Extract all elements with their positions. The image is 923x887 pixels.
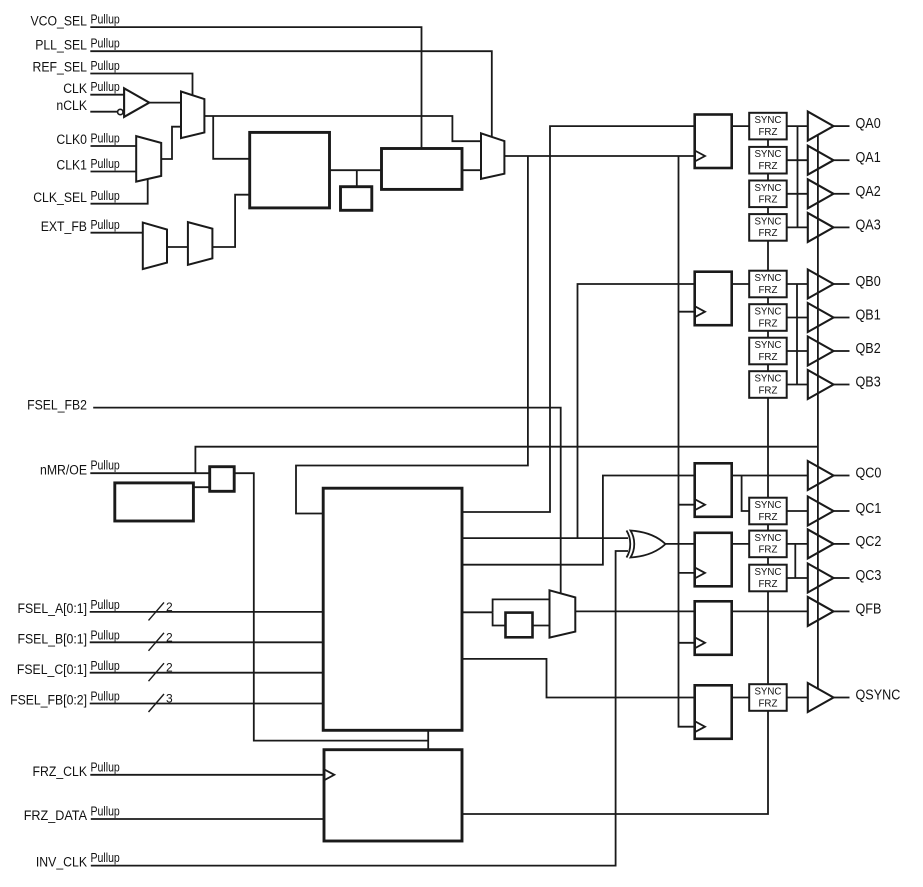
wire FF C1 branch to QC1 sync [742, 476, 750, 512]
wire clock tap to FF C2 [679, 572, 695, 574]
wire EXT_FB to mux M3 [91, 232, 143, 234]
wire INV_CLK to XOR input [91, 551, 628, 866]
FF B clock wedge [695, 306, 705, 317]
FF FB clock wedge [695, 637, 705, 648]
svg-text:FRZ: FRZ [758, 227, 778, 239]
wire divide-by-2 output to FSEL mux [533, 625, 550, 627]
SYNC FRZ box for QSYNC [749, 684, 787, 711]
wire CLK to input buffer [90, 94, 124, 96]
svg-text:Pullup: Pullup [91, 690, 120, 704]
divider block [323, 488, 462, 730]
svg-text:SYNC: SYNC [754, 499, 781, 511]
output buffer QB2 [808, 337, 834, 366]
wire QC2 output stub [834, 543, 850, 545]
wire QB1 to output buffer [787, 317, 808, 319]
wire clock tap to FF FB [679, 642, 695, 644]
mux M1 (reference select) [181, 92, 204, 139]
output buffer QA0 [808, 112, 834, 141]
wire QA3 to output buffer [787, 226, 808, 228]
flip-flop FF SYNC [695, 685, 732, 739]
wire divider bottom to freeze block [427, 730, 429, 749]
output buffer QC2 [808, 529, 834, 558]
svg-text:QC1: QC1 [856, 501, 882, 517]
divide-by-2 box [506, 613, 533, 638]
svg-text:QB3: QB3 [856, 375, 881, 391]
svg-text:Pullup: Pullup [91, 59, 120, 73]
output buffer QC1 [808, 497, 834, 526]
wire QB2 output stub [834, 350, 850, 352]
svg-text:INV_CLK: INV_CLK [36, 855, 88, 871]
svg-text:QC3: QC3 [856, 568, 882, 584]
output buffer QA1 [808, 146, 834, 175]
wire QC2 to output buffer [787, 543, 808, 545]
svg-text:QA3: QA3 [856, 217, 881, 233]
wire divider out 3 to FF C1 data [462, 476, 808, 565]
mux M5 (PLL bypass select) [481, 133, 504, 179]
output buffer QC0 [808, 461, 834, 490]
wire clock bus to FF clocks [679, 156, 695, 727]
svg-text:2: 2 [166, 661, 173, 675]
mux M3 (EXT_FB stage 1) [143, 223, 167, 270]
svg-text:FRZ: FRZ [758, 544, 778, 556]
wire freeze chain and freeze block output [462, 140, 768, 814]
loop filter box [341, 187, 372, 211]
flip-flop FF C1 [695, 463, 732, 517]
svg-text:Pullup: Pullup [91, 805, 120, 819]
wire clock down to divider block [296, 156, 528, 514]
svg-text:FRZ_DATA: FRZ_DATA [24, 808, 88, 824]
SYNC FRZ box for QA3 [749, 214, 787, 241]
svg-text:PLL_SEL: PLL_SEL [35, 37, 87, 53]
FF A clock wedge [695, 151, 705, 162]
svg-text:CLK1: CLK1 [56, 158, 87, 174]
inversion bubble on nCLK [118, 109, 123, 114]
svg-text:QC2: QC2 [856, 534, 882, 550]
wire QB0 output stub [834, 283, 850, 285]
wire mux M1 output to mux M5 [205, 116, 482, 141]
SYNC FRZ box for QA1 [749, 147, 787, 174]
svg-text:QA2: QA2 [856, 184, 881, 200]
XOR gate (INV_CLK) [627, 531, 631, 558]
svg-text:QSYNC: QSYNC [856, 688, 901, 704]
wire mux M3 output to mux M4 [167, 246, 188, 248]
bus slash FSEL_C[0:1] [149, 663, 165, 681]
wire mux M2 output to mux M1 [161, 127, 181, 159]
wire FSEL_B to divider [90, 641, 324, 643]
output buffer QB0 [808, 270, 834, 299]
wire QA2 output stub [834, 193, 850, 195]
wire QB2 to output buffer [787, 350, 808, 352]
wire bypass branch to FSEL mux [493, 599, 550, 612]
svg-text:Pullup: Pullup [91, 132, 120, 146]
svg-text:FRZ: FRZ [758, 126, 778, 138]
PLL phase detector block [250, 132, 330, 208]
svg-text:CLK: CLK [63, 81, 87, 97]
wire FSEL_A to divider [90, 611, 324, 613]
svg-text:VCO_SEL: VCO_SEL [31, 13, 88, 29]
svg-text:FRZ: FRZ [758, 578, 778, 590]
svg-text:2: 2 [166, 630, 173, 644]
wire bank C tie [794, 544, 796, 578]
wire VCO output to mux M5 [462, 169, 481, 171]
wire PLL_SEL to mux M5 select [90, 51, 492, 137]
wire divider out 2 to XOR input [462, 537, 628, 539]
svg-text:QC0: QC0 [856, 466, 882, 482]
svg-text:FRZ: FRZ [758, 160, 778, 172]
SYNC FRZ box for QA0 [749, 113, 787, 140]
svg-text:QB2: QB2 [856, 341, 881, 357]
FF SYNC clock wedge [695, 721, 705, 732]
output buffer QFB [808, 597, 834, 626]
wire QSYNC to output buffer [787, 697, 808, 699]
svg-text:nCLK: nCLK [56, 98, 87, 114]
svg-text:SYNC: SYNC [754, 373, 781, 385]
svg-text:REF_SEL: REF_SEL [33, 60, 88, 76]
flip-flop FF C2 [695, 533, 732, 587]
wire branch to divide-by-2 box [493, 612, 506, 625]
svg-text:FRZ: FRZ [758, 317, 778, 329]
svg-text:Pullup: Pullup [91, 189, 120, 203]
SYNC FRZ box for QB1 [749, 304, 787, 331]
svg-text:FSEL_FB2: FSEL_FB2 [27, 398, 87, 414]
mux M4 (EXT_FB stage 2) [188, 222, 213, 265]
svg-text:FSEL_A[0:1]: FSEL_A[0:1] [18, 601, 88, 617]
svg-text:QB0: QB0 [856, 274, 881, 290]
svg-text:SYNC: SYNC [754, 686, 781, 698]
svg-text:Pullup: Pullup [91, 659, 120, 673]
wire QB0 to output buffer [787, 283, 808, 285]
wire QA0 to output buffer [787, 125, 808, 127]
wire QC3 output stub [834, 577, 850, 579]
svg-text:SYNC: SYNC [754, 215, 781, 227]
wire FSEL_FB2 to FSEL mux select [93, 408, 561, 594]
svg-text:SYNC: SYNC [754, 306, 781, 318]
SYNC FRZ box for QC1 [749, 498, 787, 525]
VCO block [382, 149, 463, 190]
wire QB1 output stub [834, 317, 850, 319]
svg-text:Pullup: Pullup [91, 760, 120, 774]
wire QC1 to output buffer [787, 510, 808, 512]
wire QB3 to output buffer [787, 384, 808, 386]
svg-text:SYNC: SYNC [754, 532, 781, 544]
svg-text:QA1: QA1 [856, 150, 881, 166]
wire CLK_SEL to mux M2 select [91, 179, 148, 204]
wire QA1 output stub [834, 159, 850, 161]
mux M2 (CLK0/CLK1 select) [136, 136, 161, 182]
SYNC FRZ box for QA2 [749, 181, 787, 208]
flip-flop FF B [695, 272, 732, 326]
svg-text:CLK_SEL: CLK_SEL [33, 190, 87, 206]
svg-text:QFB: QFB [856, 601, 882, 617]
wire CLK1 to mux M2 [91, 171, 137, 173]
svg-text:SYNC: SYNC [754, 148, 781, 160]
wire CLK0 to mux M2 [91, 145, 137, 147]
wire buffer output to mux M1 [149, 102, 181, 104]
wire stub to monitor box [193, 486, 209, 488]
svg-text:FSEL_B[0:1]: FSEL_B[0:1] [18, 631, 88, 647]
output buffer QC3 [808, 564, 834, 593]
svg-text:3: 3 [166, 692, 173, 706]
freeze block clock wedge [324, 769, 334, 780]
wire bank A tie [797, 126, 799, 227]
svg-text:Pullup: Pullup [91, 13, 120, 27]
input buffer (CLK/nCLK) [124, 88, 149, 117]
wire QA1 to output buffer [787, 159, 808, 161]
mux M6 (feedback divide select) [550, 590, 576, 637]
wire QA2 to output buffer [787, 193, 808, 195]
wire mux M5 output to FF A clock [504, 155, 694, 157]
wire nMR/OE input [90, 472, 209, 474]
wire clock tap to FF B [679, 311, 695, 313]
svg-text:SYNC: SYNC [754, 114, 781, 126]
svg-text:FRZ: FRZ [758, 351, 778, 363]
svg-text:Pullup: Pullup [91, 459, 120, 473]
svg-text:FRZ_CLK: FRZ_CLK [33, 764, 88, 780]
output freeze control block [324, 750, 462, 841]
output buffer QA2 [808, 179, 834, 208]
svg-text:SYNC: SYNC [754, 272, 781, 284]
wire mux M4 output to PLL block [212, 195, 249, 247]
wire QC1 output stub [834, 510, 850, 512]
wire FRZ_CLK to freeze block [90, 774, 324, 776]
FF C2 clock wedge [695, 567, 705, 578]
svg-text:FRZ: FRZ [758, 697, 778, 709]
svg-text:SYNC: SYNC [754, 566, 781, 578]
SYNC FRZ box for QB0 [749, 271, 787, 298]
svg-text:SYNC: SYNC [754, 339, 781, 351]
svg-text:Pullup: Pullup [91, 37, 120, 51]
svg-text:nMR/OE: nMR/OE [40, 462, 87, 478]
svg-text:Pullup: Pullup [91, 598, 120, 612]
wire REF_SEL to mux M1 select [90, 74, 192, 96]
wire stub to loop filter box [356, 170, 358, 187]
svg-text:QB1: QB1 [856, 308, 881, 324]
bus slash FSEL_A[0:1] [149, 602, 165, 620]
nMR/OE control box [210, 467, 235, 492]
svg-text:FSEL_C[0:1]: FSEL_C[0:1] [17, 662, 87, 678]
wire bank B tie [796, 284, 798, 385]
wire QC3 to output buffer [787, 577, 808, 579]
wire FSEL_FB to divider [90, 703, 324, 705]
wire nCLK to input buffer [90, 111, 117, 113]
output buffer QA3 [808, 213, 834, 242]
SYNC FRZ box for QC2 [749, 531, 787, 558]
SYNC FRZ box for QB3 [749, 371, 787, 398]
wire QA0 output stub [834, 125, 850, 127]
wire output enable bus vertical [817, 136, 819, 690]
svg-text:Pullup: Pullup [91, 157, 120, 171]
svg-text:SYNC: SYNC [754, 182, 781, 194]
wire nMR/OE branch to output enable bus [195, 447, 818, 474]
output buffer QSYNC [808, 683, 834, 712]
output buffer QB3 [808, 370, 834, 399]
svg-text:Pullup: Pullup [91, 218, 120, 232]
svg-text:FRZ: FRZ [758, 284, 778, 296]
SYNC FRZ box for QB2 [749, 338, 787, 365]
svg-text:CLK0: CLK0 [56, 132, 87, 148]
wire FRZ_DATA to freeze block [91, 818, 324, 820]
svg-text:QA0: QA0 [856, 116, 881, 132]
wire FSEL_C to divider [90, 672, 324, 674]
SYNC FRZ box for QC3 [749, 565, 787, 592]
wire clock tap to FF C1 [679, 504, 695, 506]
wire FSEL mux output to FF FB data [575, 610, 808, 612]
wire QFB output stub [834, 610, 850, 612]
wire divider out 4 to FSEL mux [462, 611, 493, 613]
wire QSYNC output stub [834, 697, 850, 699]
svg-text:Pullup: Pullup [91, 628, 120, 642]
svg-text:FRZ: FRZ [758, 194, 778, 206]
wire QB3 output stub [834, 384, 850, 386]
wire branch divider out 2 to FF B data [578, 284, 750, 538]
flip-flop FF A [695, 115, 732, 169]
wire divider out 1 to FF A data [462, 126, 749, 512]
FF C1 clock wedge [695, 499, 705, 510]
bus slash FSEL_FB[0:2] [149, 694, 165, 712]
svg-text:Pullup: Pullup [91, 80, 120, 94]
wire XOR output to FF C2 data [666, 543, 750, 545]
svg-text:Pullup: Pullup [91, 851, 120, 865]
svg-text:2: 2 [166, 600, 173, 614]
wire QA3 output stub [834, 226, 850, 228]
svg-text:FRZ: FRZ [758, 511, 778, 523]
wire divider out 5 to FF SYNC data [462, 659, 749, 698]
svg-text:FRZ: FRZ [758, 384, 778, 396]
wire VCO_SEL to VCO block [90, 27, 421, 148]
wire OE box output down to freeze block [234, 473, 428, 740]
output buffer QB1 [808, 303, 834, 332]
svg-text:FSEL_FB[0:2]: FSEL_FB[0:2] [10, 693, 87, 709]
svg-text:EXT_FB: EXT_FB [41, 219, 87, 235]
monitor box [115, 483, 194, 521]
wire QC0 output stub [834, 475, 850, 477]
bus slash FSEL_B[0:1] [149, 633, 165, 651]
wire mux M1 branch to PLL block [213, 116, 250, 159]
wire PLL output to VCO block [330, 169, 382, 171]
flip-flop FF FB [695, 601, 732, 655]
